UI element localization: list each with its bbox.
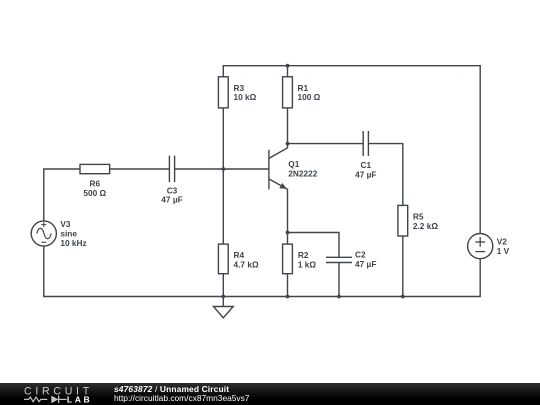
wire right rail to V2 top [479,66,481,234]
svg-text:47 µF: 47 µF [161,195,182,205]
wire R3 bottom to R4 [222,169,224,244]
node C2 bottom [337,295,341,299]
node R5 bottom [401,295,405,299]
svg-text:R5: R5 [413,211,424,221]
svg-text:47 µF: 47 µF [355,170,376,180]
node ground junction [221,295,225,299]
svg-text:10 kΩ: 10 kΩ [234,92,257,102]
svg-text:10 kHz: 10 kHz [60,238,86,248]
transistor Q1 [269,144,318,233]
footer meta text [114,385,249,402]
resistor R6 [80,164,110,198]
svg-text:V3: V3 [60,219,71,229]
node emitter [286,231,290,235]
wire C3 to base [175,168,269,170]
wire R6 to C3 [110,168,170,170]
resistor R3 [218,66,256,169]
capacitor C1 [355,131,376,180]
svg-text:2.2 kΩ: 2.2 kΩ [413,221,438,231]
node collector [286,142,290,146]
node R2 bottom [286,295,290,299]
footer bar [0,383,540,405]
CircuitLab logo [0,383,112,405]
svg-text:4.7 kΩ: 4.7 kΩ [234,260,259,270]
svg-text:Q1: Q1 [288,159,299,169]
voltage source V2 [468,234,510,259]
wire V3 bottom [43,246,45,296]
node top R1 junction [286,64,290,68]
resistor R5 [398,205,438,296]
resistor R2 [283,233,317,297]
voltage source V3 [31,219,86,248]
svg-text:V2: V2 [497,236,508,246]
capacitor C3 [161,156,182,205]
capacitor C2 [326,249,376,296]
wire V3 top to R6 [44,169,80,221]
resistor R1 [283,66,321,144]
svg-text:100 Ω: 100 Ω [298,92,321,102]
svg-text:R6: R6 [89,178,100,188]
svg-text:C2: C2 [355,249,366,259]
svg-text:500 Ω: 500 Ω [83,188,106,198]
resistor R4 [218,244,259,296]
wire bottom rail [43,296,481,298]
node base junction [221,167,225,171]
svg-text:LAB: LAB [67,394,92,404]
wire emitter to C2 [288,233,340,258]
wire top rail [223,65,481,67]
ground [213,297,233,318]
svg-text:1 kΩ: 1 kΩ [298,260,317,270]
wire collector to C1 [288,143,364,145]
wire C1 to R5 [368,144,402,206]
svg-text:2N2222: 2N2222 [288,168,317,178]
svg-text:1 V: 1 V [497,246,510,256]
svg-text:47 µF: 47 µF [355,259,376,269]
wire V2 bottom to bottom rail [479,259,481,297]
